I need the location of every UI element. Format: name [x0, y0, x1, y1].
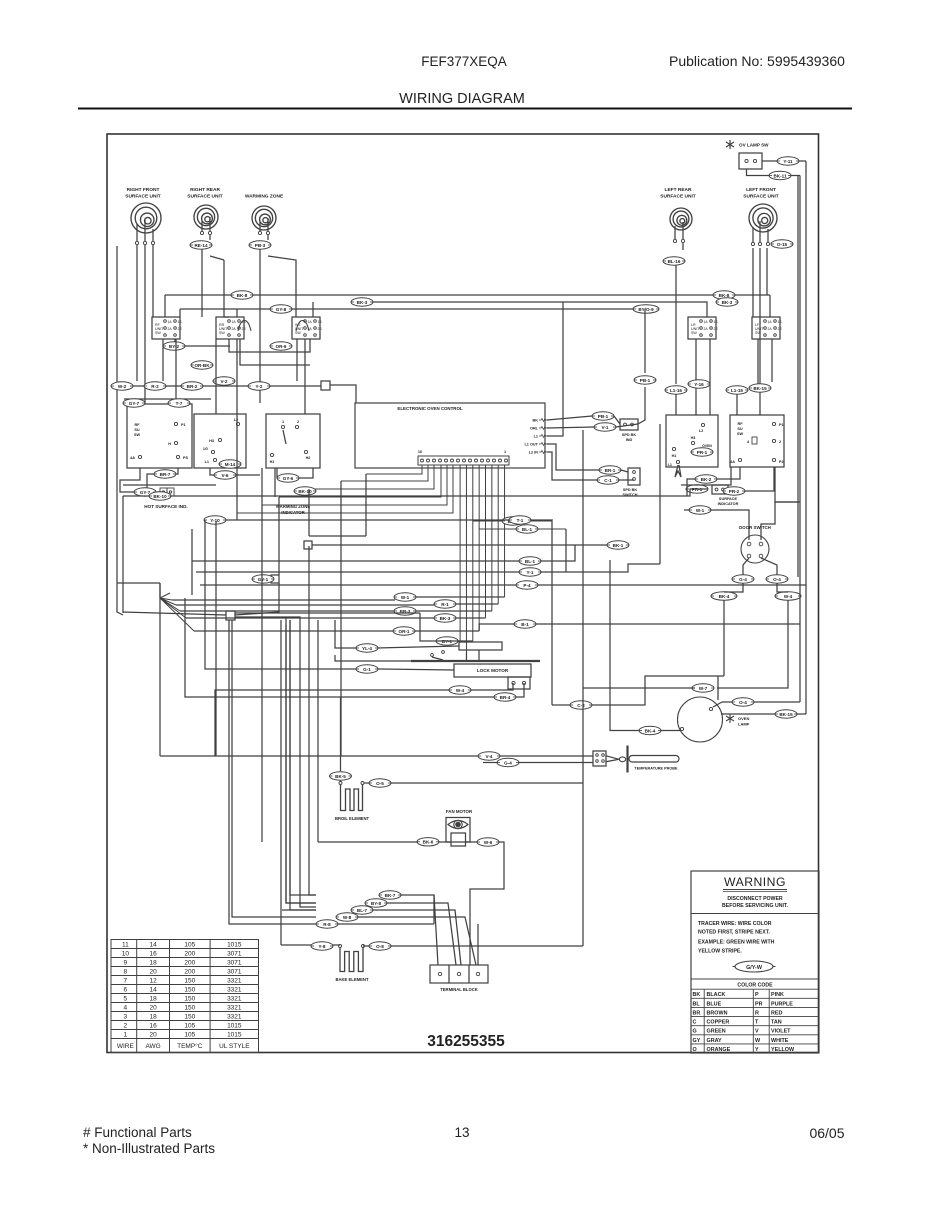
- wire tb3: [477, 924, 479, 965]
- wire label BYO2: [634, 376, 656, 384]
- svg-text:FAN MOTOR: FAN MOTOR: [446, 809, 473, 814]
- svg-text:BY/O-9: BY/O-9: [638, 307, 654, 312]
- svg-text:LEFT REAR: LEFT REAR: [665, 187, 692, 193]
- wire BK out: [547, 416, 592, 420]
- svg-text:316255355: 316255355: [427, 1033, 505, 1050]
- bus D: [112, 385, 321, 387]
- wire v262: [261, 505, 263, 842]
- svg-text:W-1: W-1: [696, 508, 705, 513]
- wire k4: [516, 683, 524, 697]
- svg-text:O-15: O-15: [777, 242, 788, 247]
- color code table: [691, 978, 819, 980]
- wire label wz1: [214, 471, 236, 479]
- oven lamp: [678, 697, 723, 742]
- wire LR b2: [709, 339, 711, 415]
- wire BYO drop2: [638, 387, 645, 424]
- wire label RR: [190, 241, 212, 249]
- svg-text:1: 1: [282, 420, 284, 424]
- warming zone element: [252, 206, 276, 230]
- svg-text:BL-16: BL-16: [668, 259, 681, 264]
- wire v566: [565, 529, 567, 572]
- wire LR b1: [695, 339, 697, 384]
- wire label m5: [316, 920, 338, 928]
- wire i3 bus: [180, 610, 394, 612]
- wire v552: [551, 521, 553, 705]
- svg-text:3071: 3071: [227, 968, 242, 975]
- speed bake switch: [628, 468, 640, 485]
- svg-text:L1 OUT: L1 OUT: [524, 443, 538, 447]
- wire label busC2: [633, 305, 659, 313]
- wire label g2: [509, 516, 531, 524]
- wire sw3: [240, 339, 310, 365]
- svg-text:PURPLE: PURPLE: [771, 1001, 793, 1007]
- svg-text:2S: 2S: [242, 327, 247, 331]
- svg-text:COLOR CODE: COLOR CODE: [737, 982, 773, 988]
- svg-text:BR: BR: [693, 1010, 701, 1016]
- wire RF left drop: [117, 246, 123, 615]
- wire door a: [743, 558, 749, 575]
- wire: [478, 650, 480, 660]
- svg-text:PR-1: PR-1: [697, 450, 708, 455]
- wire label r1: [665, 386, 687, 394]
- svg-text:TAN: TAN: [771, 1020, 782, 1026]
- wire su sw drop: [775, 467, 798, 502]
- svg-text:L2 IN: L2 IN: [529, 451, 539, 455]
- svg-text:R-1: R-1: [441, 602, 449, 607]
- svg-text:TEMPERATURE PROBE: TEMPERATURE PROBE: [634, 767, 678, 771]
- svg-text:BK-11: BK-11: [773, 173, 786, 178]
- wire door h: [583, 687, 695, 689]
- svg-text:ORL: ORL: [530, 427, 539, 431]
- wire WZ right drop: [268, 256, 296, 317]
- svg-text:WIRE: WIRE: [117, 1043, 135, 1050]
- wire lock bar feed: [335, 655, 411, 661]
- svg-text:18: 18: [149, 995, 157, 1002]
- wire door b: [761, 558, 777, 575]
- wire m2: [387, 903, 456, 965]
- wire label g1: [204, 516, 226, 524]
- svg-text:ORANGE: ORANGE: [707, 1047, 731, 1053]
- bus 520: [205, 519, 553, 521]
- wire label i7: [436, 637, 458, 645]
- svg-text:PB-3: PB-3: [255, 243, 266, 248]
- warming zone switch box: [266, 414, 320, 468]
- wire label hs2: [134, 488, 156, 496]
- wire label fan 2: [477, 838, 499, 846]
- wire RR right drop: [224, 260, 229, 317]
- svg-text:OVEN: OVEN: [738, 716, 749, 721]
- wire label m3: [351, 906, 373, 914]
- wire label s1: [695, 475, 717, 483]
- wire LF b2: [771, 339, 773, 382]
- coil leg: [144, 220, 146, 241]
- wire v275: [274, 468, 276, 497]
- svg-text:105: 105: [184, 941, 195, 948]
- svg-text:BK: BK: [693, 992, 701, 998]
- wire v290: [290, 620, 316, 910]
- svg-text:G/Y-W: G/Y-W: [746, 965, 763, 971]
- wire i7b: [458, 640, 473, 642]
- wire: [799, 160, 806, 162]
- svg-text:COPPER: COPPER: [707, 1020, 730, 1026]
- svg-text:Y-1: Y-1: [527, 570, 534, 575]
- svg-text:4A: 4A: [730, 460, 735, 464]
- wire v216b: [215, 339, 217, 414]
- wire lamp left: [610, 560, 639, 731]
- junction fan: [160, 593, 194, 631]
- wire label lamp r1: [732, 698, 754, 706]
- svg-text:C: C: [693, 1020, 697, 1026]
- wire k2b: [205, 520, 356, 669]
- bake element: [339, 945, 342, 948]
- svg-text:GY: GY: [693, 1038, 701, 1044]
- bus 545: [312, 544, 607, 546]
- wire jf4: [229, 620, 274, 924]
- svg-text:O: O: [693, 1047, 697, 1053]
- wire v309: [308, 489, 310, 536]
- probe wire b: [606, 759, 619, 762]
- wire wz2a: [276, 468, 278, 478]
- wire v286: [286, 617, 316, 903]
- svg-text:W-2: W-2: [118, 384, 127, 389]
- wire right v796: [799, 176, 801, 703]
- svg-text:20: 20: [149, 1031, 157, 1038]
- svg-text:WARMING ZONE: WARMING ZONE: [245, 194, 284, 200]
- bus C drop: [179, 309, 181, 317]
- svg-text:BY-2: BY-2: [169, 344, 180, 349]
- diagram border: [107, 134, 819, 1053]
- temperature probe connector: [593, 751, 606, 766]
- wire label LR: [663, 257, 685, 265]
- svg-text:P: P: [755, 992, 759, 998]
- svg-text:VIOLET: VIOLET: [771, 1029, 791, 1035]
- svg-text:* Non-Illustrated Parts: * Non-Illustrated Parts: [83, 1141, 215, 1156]
- wire i2b: [456, 603, 498, 605]
- svg-text:WIRING DIAGRAM: WIRING DIAGRAM: [399, 91, 525, 107]
- wire wz2b: [299, 468, 313, 478]
- switch arm: [283, 430, 286, 444]
- svg-text:AWG: AWG: [145, 1043, 160, 1050]
- wire label wz2: [277, 474, 299, 482]
- oven light switch box: [666, 415, 718, 467]
- broil element: [339, 782, 342, 785]
- wire LF pin drop2: [766, 248, 768, 295]
- wire k2: [378, 669, 454, 670]
- wire h1 bus: [192, 560, 519, 562]
- wire label comb r1: [502, 517, 524, 525]
- wire WZ pin1 drop: [259, 249, 261, 403]
- wire k3: [471, 683, 513, 690]
- svg-text:O-4: O-4: [773, 577, 781, 582]
- svg-text:3071: 3071: [227, 950, 242, 957]
- svg-text:B-1: B-1: [521, 622, 529, 627]
- wire node to EOC: [330, 385, 356, 403]
- wire: [432, 657, 443, 660]
- svg-text:200: 200: [184, 950, 195, 957]
- wire to spd ind2: [616, 424, 638, 427]
- svg-text:DISCONNECT POWER: DISCONNECT POWER: [727, 896, 783, 902]
- svg-text:SURFACE UNIT: SURFACE UNIT: [660, 194, 696, 200]
- wire hs3: [120, 468, 140, 492]
- wire WZ pin2 stub: [267, 235, 269, 240]
- svg-text:BEFORE SERVICING UNIT.: BEFORE SERVICING UNIT.: [722, 903, 788, 909]
- wire r1 drop: [675, 394, 677, 415]
- door switch: [741, 535, 769, 563]
- svg-text:Y-16: Y-16: [694, 382, 704, 387]
- wire label LF: [771, 240, 793, 248]
- wire m1v: [433, 895, 435, 924]
- svg-text:3: 3: [124, 1013, 128, 1020]
- switch WZ unit sw: [292, 317, 320, 339]
- svg-text:W-8: W-8: [343, 915, 352, 920]
- wire v309b: [309, 546, 316, 895]
- wire door c: [724, 583, 743, 592]
- svg-text:1015: 1015: [227, 1022, 242, 1029]
- wire to spdsw: [621, 470, 628, 472]
- svg-text:R-2: R-2: [151, 384, 159, 389]
- svg-text:1A: 1A: [768, 320, 773, 324]
- svg-text:RIGHT FRONT: RIGHT FRONT: [127, 187, 160, 193]
- svg-text:BK-5: BK-5: [335, 774, 346, 779]
- wire h1: [541, 545, 575, 561]
- wire label lamp sw 1: [777, 157, 799, 165]
- wire hs2: [147, 474, 154, 488]
- svg-text:P1: P1: [181, 423, 186, 427]
- svg-text:P-4: P-4: [523, 583, 531, 588]
- svg-text:L2: L2: [699, 429, 703, 433]
- wire label busA: [231, 291, 253, 299]
- wire fan right: [470, 842, 504, 965]
- svg-text:3321: 3321: [227, 1013, 242, 1020]
- wire hs4: [156, 491, 160, 493]
- EOC connector strip: [418, 456, 509, 465]
- wire i5 long: [536, 623, 800, 625]
- svg-text:1S: 1S: [778, 320, 783, 324]
- svg-text:UL STYLE: UL STYLE: [219, 1043, 250, 1050]
- svg-text:H3: H3: [691, 436, 696, 440]
- wire label lamp: [639, 726, 661, 734]
- wire label i6: [393, 627, 415, 635]
- wire door drop1: [723, 600, 725, 676]
- coil leg: [201, 221, 203, 231]
- svg-text:2S: 2S: [778, 327, 783, 331]
- wire probe long: [160, 755, 478, 757]
- wire door d: [777, 583, 788, 592]
- wire wz1: [210, 468, 260, 475]
- wire label e2: [168, 399, 190, 407]
- svg-text:BK-4: BK-4: [719, 594, 730, 599]
- wire L1 up: [547, 302, 563, 436]
- svg-text:RIGHT REAR: RIGHT REAR: [190, 187, 220, 193]
- wire sw1 drop: [175, 339, 230, 346]
- svg-text:5: 5: [124, 995, 128, 1002]
- svg-text:BL-1: BL-1: [522, 527, 533, 532]
- wire fan left: [318, 841, 418, 843]
- wire label f2: [294, 487, 316, 495]
- wire label probe 1: [478, 752, 500, 760]
- wire label k4: [494, 693, 516, 701]
- svg-text:WARNING: WARNING: [724, 875, 786, 889]
- svg-text:R-8: R-8: [323, 922, 331, 927]
- svg-text:16: 16: [418, 450, 422, 454]
- svg-text:BL-7: BL-7: [357, 908, 368, 913]
- wire jf3: [232, 620, 278, 917]
- wire label busB2: [716, 298, 738, 306]
- wire si1: [684, 509, 689, 511]
- lock switch arm: [431, 654, 434, 657]
- svg-text:Y-11: Y-11: [783, 159, 793, 164]
- svg-text:16: 16: [149, 1022, 157, 1029]
- probe wire a: [606, 756, 619, 760]
- svg-text:SW: SW: [737, 432, 744, 436]
- wire label i2: [434, 600, 456, 608]
- wire ORL out: [547, 427, 594, 428]
- svg-text:LAMP: LAMP: [738, 722, 750, 727]
- svg-text:OV LAMP SW: OV LAMP SW: [739, 143, 769, 148]
- junction node 4: [226, 611, 235, 620]
- wire broil 2a: [364, 782, 369, 784]
- wire label sw3: [191, 361, 213, 369]
- wire bake mid: [333, 944, 340, 946]
- wire label i5: [514, 620, 536, 628]
- wire label i0: [252, 575, 274, 583]
- wire i2 bus: [176, 604, 434, 606]
- wire susw 4a: [717, 467, 740, 479]
- wire right vertical: [797, 176, 799, 578]
- wire label i1: [394, 593, 416, 601]
- wire to oven lamp: [805, 161, 807, 714]
- svg-text:SPD BK: SPD BK: [623, 488, 638, 492]
- svg-text:13: 13: [454, 1125, 469, 1140]
- wire: [747, 169, 770, 176]
- svg-text:TERMINAL BLOCK: TERMINAL BLOCK: [440, 987, 478, 992]
- svg-text:3321: 3321: [227, 995, 242, 1002]
- svg-text:GY-7: GY-7: [140, 490, 151, 495]
- wire sw2 link: [229, 339, 310, 352]
- svg-text:P2: P2: [779, 460, 784, 464]
- wire h3 long: [538, 584, 806, 586]
- wire r4 drop: [759, 392, 761, 415]
- svg-text:SURFACE UNIT: SURFACE UNIT: [187, 194, 223, 200]
- svg-text:BK-2: BK-2: [701, 477, 712, 482]
- svg-text:2: 2: [779, 440, 781, 444]
- svg-text:L1-15: L1-15: [731, 388, 743, 393]
- svg-text:BK-8: BK-8: [237, 293, 248, 298]
- svg-text:PR-2: PR-2: [729, 489, 740, 494]
- oven lamp switch: [739, 153, 762, 169]
- terminal block: [430, 965, 488, 983]
- svg-text:GREEN: GREEN: [707, 1029, 726, 1035]
- wire k5a: [552, 704, 570, 706]
- tracer example oval: [735, 961, 773, 972]
- wire hs1: [176, 468, 178, 474]
- warming zone indicator box: [194, 414, 246, 468]
- wire bake left: [281, 944, 311, 946]
- svg-text:V: V: [755, 1029, 759, 1035]
- wire label e1: [123, 399, 145, 407]
- bus A: [165, 294, 770, 296]
- svg-text:T-7: T-7: [176, 401, 183, 406]
- svg-text:20: 20: [149, 968, 157, 975]
- junction node: [321, 381, 330, 390]
- svg-text:G-4: G-4: [739, 577, 747, 582]
- wire label h3: [516, 581, 538, 589]
- wire label d5: [248, 382, 270, 390]
- svg-text:BK-3: BK-3: [440, 616, 451, 621]
- svg-text:BK-10: BK-10: [298, 489, 312, 494]
- svg-text:1A: 1A: [308, 320, 313, 324]
- bus C drop RR: [236, 309, 238, 317]
- svg-text:HOT SURFACE IND.: HOT SURFACE IND.: [144, 504, 187, 509]
- svg-text:12: 12: [149, 977, 157, 984]
- svg-text:G-4: G-4: [504, 760, 512, 765]
- svg-text:RED: RED: [771, 1010, 782, 1016]
- wire label probe 2: [497, 758, 519, 766]
- wire label d3: [181, 382, 203, 390]
- coil leg: [759, 221, 761, 242]
- svg-text:BL-1: BL-1: [525, 559, 536, 564]
- svg-text:GY-6: GY-6: [283, 476, 294, 481]
- wire lamp pin right2: [721, 713, 806, 715]
- wire bake mid2: [363, 945, 369, 947]
- wire m4: [358, 917, 476, 965]
- wire lamp pin right: [722, 701, 800, 703]
- wire v279: [278, 497, 280, 575]
- wire label surface ind: [686, 485, 708, 493]
- wire label door 2: [766, 575, 788, 583]
- wire i4 bus: [186, 617, 434, 619]
- wire bake right: [391, 945, 583, 947]
- svg-text:1S: 1S: [178, 320, 183, 324]
- wire LF pin drop: [752, 248, 754, 317]
- svg-text:10: 10: [122, 950, 130, 957]
- svg-text:GY-8: GY-8: [276, 307, 287, 312]
- svg-text:9: 9: [124, 959, 128, 966]
- wire label hs1: [154, 470, 176, 478]
- wire i3b: [416, 610, 492, 612]
- wire si3: [761, 502, 800, 540]
- bus B: [357, 302, 707, 317]
- svg-text:W-4: W-4: [784, 594, 793, 599]
- svg-text:1: 1: [124, 1031, 128, 1038]
- wire label r3: [726, 386, 748, 394]
- wire m5: [338, 923, 434, 925]
- wire probe long2: [500, 755, 593, 757]
- wire label lamp r2: [775, 710, 797, 718]
- wire m3: [373, 910, 461, 965]
- wire RR pin1 drop: [201, 249, 203, 317]
- wire label sw2: [270, 342, 292, 350]
- hot surface indicator box: [127, 404, 192, 468]
- wire si2: [711, 510, 749, 540]
- wire LF stub: [759, 248, 761, 384]
- svg-text:200: 200: [184, 968, 195, 975]
- wire j3: [159, 583, 161, 598]
- wire door drop2: [717, 600, 788, 688]
- wire pin7 to bar: [465, 652, 467, 660]
- wire label PB-1: [592, 412, 614, 420]
- wire m4b: [278, 916, 316, 918]
- wire susw p2: [745, 467, 774, 491]
- warning box: [691, 871, 819, 1053]
- wire i5b: [479, 624, 514, 631]
- wire broil right: [391, 782, 583, 784]
- svg-text:TRACER WIRE: WIRE COLOR: TRACER WIRE: WIRE COLOR: [698, 921, 772, 927]
- svg-text:14: 14: [149, 941, 157, 948]
- wire: [762, 160, 777, 162]
- svg-text:Y: Y: [755, 1047, 759, 1053]
- wire label d1: [111, 382, 133, 390]
